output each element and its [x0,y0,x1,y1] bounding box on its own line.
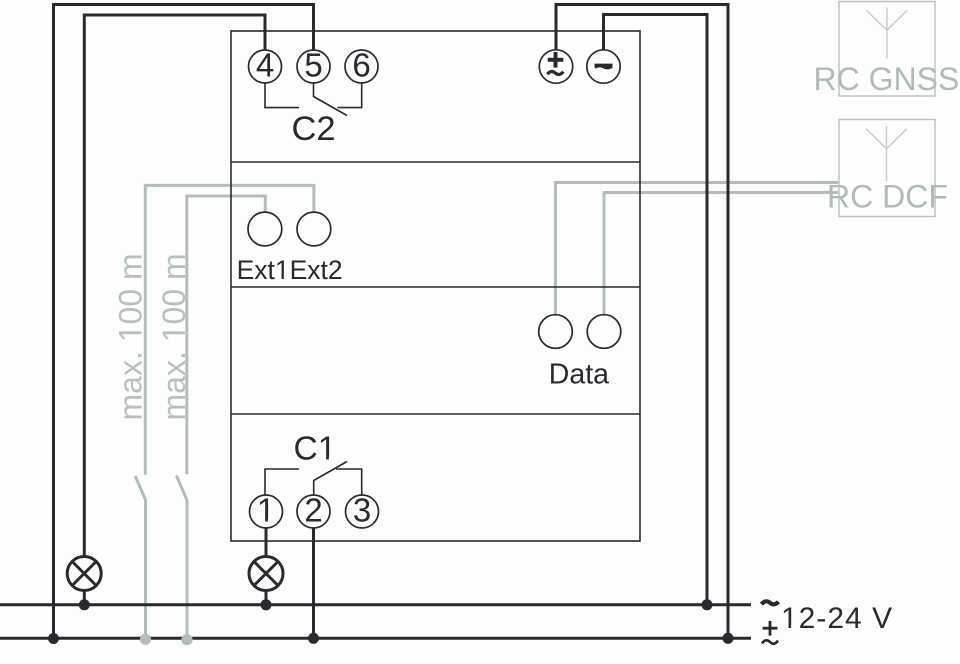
svg-text:12-24 V: 12-24 V [781,602,893,635]
svg-text:2: 2 [304,492,322,529]
wire Ext1 cable break [176,476,187,501]
contact C1 wire from terminal 3 [336,469,362,495]
svg-text:3: 3 [353,492,371,529]
symbol ~ below lower supply line [762,640,778,643]
terminal 6 [345,50,378,83]
svg-text:C2: C2 [292,110,336,148]
wire +~ terminal to bottom supply [556,5,728,639]
svg-text:Data: Data [549,359,609,391]
node junction -~ wire [702,599,713,610]
terminal Ext1 [248,212,282,246]
wire terminal5 to bottom-left supply [54,5,314,639]
terminal Data1 [539,315,573,349]
antenna RC DCF symbol [866,126,907,181]
node junction lamp2 [261,599,272,610]
terminal 2 [297,495,330,528]
symbol + at lower supply line [763,621,778,636]
svg-text:4: 4 [256,47,274,84]
terminal 1 [250,495,283,528]
node junction terminal2 wire [308,633,319,644]
svg-text:C1: C1 [294,431,337,468]
lamp symbol 1 [67,557,101,591]
terminal 5 [297,50,330,83]
wire Ext2 cable (left gray vertical to Ext2) [145,185,314,474]
wire Data2 to RC antenna [604,193,838,316]
contact C1 blade from terminal 2 [314,462,347,496]
node gray junction Ext1 cable on supply line [181,634,192,645]
terminal 3 [346,495,379,528]
svg-text:max. 100 m: max. 100 m [113,253,149,420]
antenna RC DCF box [839,120,935,217]
wire terminal2 to supply line [312,528,315,638]
antenna RC GNSS symbol [867,8,908,59]
symbol -~ inside terminal [595,65,613,68]
svg-text:RC DCF: RC DCF [827,179,948,215]
terminal Ext2 [297,212,331,246]
wire Ext1 cable lower [186,500,189,640]
wire terminal4 to lamp1 [84,15,265,557]
serif cleanups for digit 1 glyphs [259,277,797,630]
wire -~ terminal to supply line [604,15,708,605]
svg-text:Ext1Ext2: Ext1Ext2 [237,255,343,285]
contact C1 wire from terminal 1 [265,469,299,495]
svg-text:6: 6 [352,47,370,84]
terminal Data2 [587,315,621,349]
contact C2 blade from terminal 5 [314,83,348,116]
terminal -~ [587,50,620,83]
divider 2 [231,286,640,288]
symbol +~ inside terminal [547,52,563,75]
wire lamp1 to supply line [83,590,86,605]
wire Ext1 cable (right gray vertical to Ext1) [187,196,265,474]
terminal 4 [249,50,282,83]
terminal +~ [539,50,572,83]
wire Ext2 cable break [135,476,145,500]
wire supply line ~ [0,603,751,606]
wire terminal1 to lamp2 [265,528,268,557]
label max. 100 m (left cable) [113,253,149,420]
node gray junction Ext2 cable on supply line [140,634,151,645]
divider 3 [231,413,640,415]
lamp symbol 2 [249,557,283,591]
wire Data1 to RC antenna [556,183,839,316]
contact C2 wire from terminal 6 [338,83,362,108]
contact C2 wire from terminal 4 [265,83,299,108]
wire Ext2 cable lower [144,500,147,640]
symbol ~ above supply line [762,601,779,604]
label max. 100 m (right cable) [156,253,192,420]
antenna RC GNSS box [839,2,935,97]
node junction +~ wire [723,633,734,644]
svg-text:RC GNSS: RC GNSS [814,61,960,97]
device inner box [231,31,640,541]
svg-text:5: 5 [304,47,322,84]
svg-text:max. 100 m: max. 100 m [156,253,192,420]
node junction left supply [48,633,59,644]
node junction lamp1 [79,599,90,610]
wire lamp2 to supply line [265,590,268,605]
divider 1 [231,161,640,163]
wire supply line +~ [0,637,751,640]
